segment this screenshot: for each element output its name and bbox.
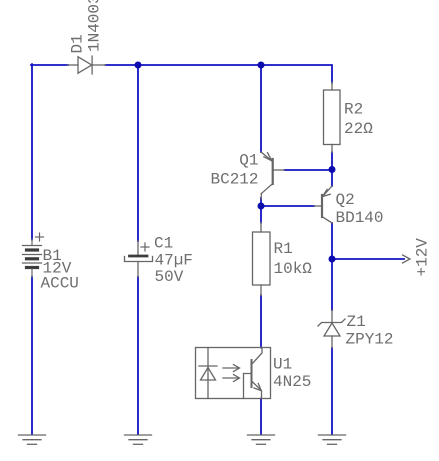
wire node to Q2 base <box>261 205 314 207</box>
ground battery <box>19 435 46 444</box>
svg-text:Z1: Z1 <box>347 313 366 331</box>
svg-text:+12V: +12V <box>414 238 432 277</box>
svg-text:BC212: BC212 <box>210 171 258 189</box>
wire C1 branch upper <box>137 65 139 241</box>
U1 LED triangle <box>201 368 216 381</box>
node junction top mid <box>258 62 265 69</box>
svg-text:50V: 50V <box>155 268 184 286</box>
ground U1 <box>248 435 275 444</box>
svg-text:47µF: 47µF <box>155 252 193 270</box>
svg-text:Q2: Q2 <box>336 191 355 209</box>
wire Z1 to ground <box>331 348 333 434</box>
U1 base <box>244 374 252 399</box>
wire U1 emitter to ground <box>260 399 262 435</box>
wire R2 bottom to Q2 emitter <box>331 153 333 187</box>
U1 LED cathode bar <box>199 365 217 367</box>
svg-text:U1: U1 <box>273 356 292 374</box>
wire top-left horizontal <box>31 64 68 66</box>
svg-text:1N4003: 1N4003 <box>86 0 104 52</box>
U1 LED line <box>207 348 209 399</box>
wire left vertical lower <box>31 277 33 434</box>
label battery plus <box>36 233 44 241</box>
zener diode Z1 <box>318 310 345 348</box>
capacitor C1 <box>125 241 153 277</box>
resistor R1 <box>253 223 271 296</box>
transistor Q2 <box>314 186 332 223</box>
svg-text:22Ω: 22Ω <box>344 120 373 138</box>
U1 phototransistor bar <box>251 360 253 387</box>
diode D1 <box>68 56 106 74</box>
label capacitor plus <box>141 243 149 251</box>
transistor Q1 <box>261 152 285 199</box>
+12V arrow head <box>403 255 411 263</box>
wire +12V output <box>332 258 404 260</box>
wire C1 branch lower <box>137 277 139 434</box>
node junction top C1 <box>135 62 142 69</box>
svg-text:4N25: 4N25 <box>273 373 311 391</box>
ground Z1 <box>319 435 346 444</box>
wire Q1 base to R2 node <box>285 169 333 171</box>
svg-text:ACCU: ACCU <box>41 275 79 293</box>
svg-text:C1: C1 <box>154 235 173 253</box>
battery B1 <box>23 239 42 277</box>
resistor R2 <box>324 82 341 153</box>
svg-text:Q1: Q1 <box>239 152 258 170</box>
svg-text:BD140: BD140 <box>336 209 384 227</box>
wire left vertical upper <box>31 64 33 239</box>
wire Q2 collector to Z1 <box>331 223 333 310</box>
wire R1 to U1 <box>260 296 262 348</box>
node junction Q1 collector <box>258 203 265 210</box>
U1 light arrow 1 <box>223 367 238 369</box>
svg-text:D1: D1 <box>69 34 87 53</box>
svg-text:R2: R2 <box>344 101 363 119</box>
wire top rail to R2 <box>106 65 333 83</box>
U1 light arrow 2 <box>223 377 238 379</box>
node junction +12V <box>329 256 336 263</box>
svg-text:R1: R1 <box>274 240 293 258</box>
svg-text:ZPY12: ZPY12 <box>346 331 394 349</box>
svg-text:10kΩ: 10kΩ <box>274 260 313 278</box>
wire mid branch to Q1 emitter <box>260 65 262 152</box>
node junction R2 bottom <box>329 166 336 173</box>
wire Q1 collector to R1 <box>260 198 262 223</box>
optocoupler U1 <box>196 348 271 399</box>
ground C1 <box>125 435 152 444</box>
U1 emitter <box>252 381 262 399</box>
U1 collector <box>252 348 263 365</box>
